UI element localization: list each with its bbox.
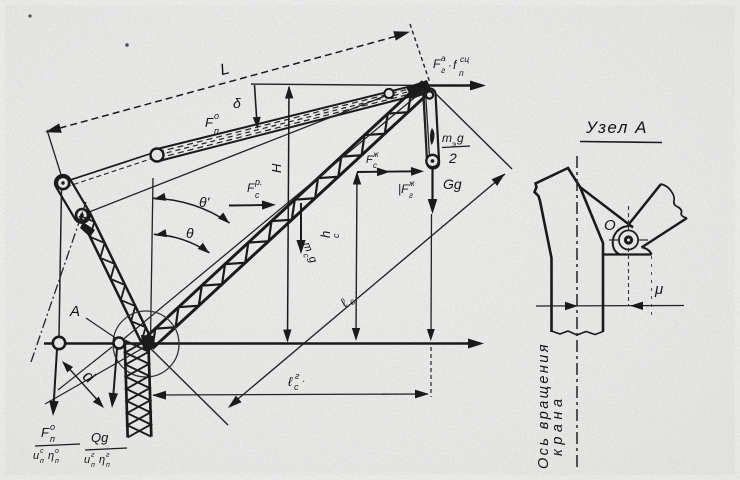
dimension Lc xyxy=(232,174,505,404)
strut heel fill xyxy=(80,222,95,237)
detail boom edge lower xyxy=(642,218,688,248)
dimension delta xyxy=(255,85,258,124)
base pulley left xyxy=(53,337,65,349)
hook ropes xyxy=(423,91,428,157)
strut head plate xyxy=(52,172,93,226)
detail boom edge upper xyxy=(629,184,661,224)
hook block middle mark xyxy=(430,128,435,145)
pin outer circle xyxy=(619,230,638,249)
hoist rope xyxy=(120,89,425,342)
dimension mu xyxy=(536,305,684,308)
lug outline xyxy=(613,226,633,254)
dimension hc xyxy=(356,173,357,336)
pendant rope left xyxy=(59,189,62,337)
construction line B xyxy=(45,348,143,404)
tip diagonal extension xyxy=(431,89,512,169)
pulley on band xyxy=(151,149,164,162)
small pulley near tip xyxy=(384,89,393,98)
dimension H line xyxy=(288,87,290,341)
base pulley right xyxy=(114,338,125,349)
angle arc theta xyxy=(154,234,210,253)
angle reference line xyxy=(151,178,154,340)
lower guy rope xyxy=(84,96,385,214)
rope band upper xyxy=(157,83,426,150)
node circle xyxy=(113,311,179,377)
pulley lower xyxy=(76,209,88,221)
force arrow Fp down xyxy=(54,349,58,407)
detail column outline xyxy=(535,168,604,332)
pin cross ticks xyxy=(609,239,620,241)
strut lattice xyxy=(80,216,142,342)
gusset line xyxy=(580,187,633,228)
lug bottom plate xyxy=(604,253,652,255)
pin vertical dotted xyxy=(628,206,630,232)
mast lattice xyxy=(125,340,128,437)
boom lattice xyxy=(152,91,431,349)
rope band lower xyxy=(159,92,428,161)
boom tip fill xyxy=(406,80,432,99)
force arrow Fga+fpsc xyxy=(427,84,478,86)
base line xyxy=(44,342,477,344)
force arrow Gg xyxy=(431,168,433,207)
pin inner xyxy=(624,235,633,244)
force arrow Qg down xyxy=(113,349,117,399)
detail boom break xyxy=(661,184,687,218)
dimension Lcg xyxy=(153,394,428,395)
lug corner dashed xyxy=(651,256,653,316)
force arrow Fsp xyxy=(229,204,268,207)
hook block bottom pulley xyxy=(426,155,438,167)
rope band dashes xyxy=(158,85,427,153)
dash-dot guy line xyxy=(31,202,86,362)
angle arc theta1 xyxy=(153,198,230,223)
hook block top circle xyxy=(426,91,433,98)
extension line left xyxy=(47,130,63,181)
dimension line L xyxy=(49,33,408,131)
hook block plate xyxy=(423,88,439,169)
speck xyxy=(28,14,31,17)
leader A xyxy=(86,318,117,339)
rope from mast pulley to band xyxy=(64,154,151,183)
construction line C xyxy=(58,347,112,390)
extension line at tip xyxy=(410,24,430,83)
force arrow mcg xyxy=(300,203,302,247)
dimension d xyxy=(65,364,101,404)
top horizontal line xyxy=(251,84,427,86)
detail column bottom break xyxy=(552,331,604,335)
pivot diagonal extension xyxy=(149,347,228,425)
hook line xyxy=(430,214,433,336)
force arrows Fszh Fgzh xyxy=(357,170,416,173)
pulley upper xyxy=(57,177,69,189)
mast heel fill xyxy=(141,335,154,350)
axis centerline xyxy=(576,156,578,468)
